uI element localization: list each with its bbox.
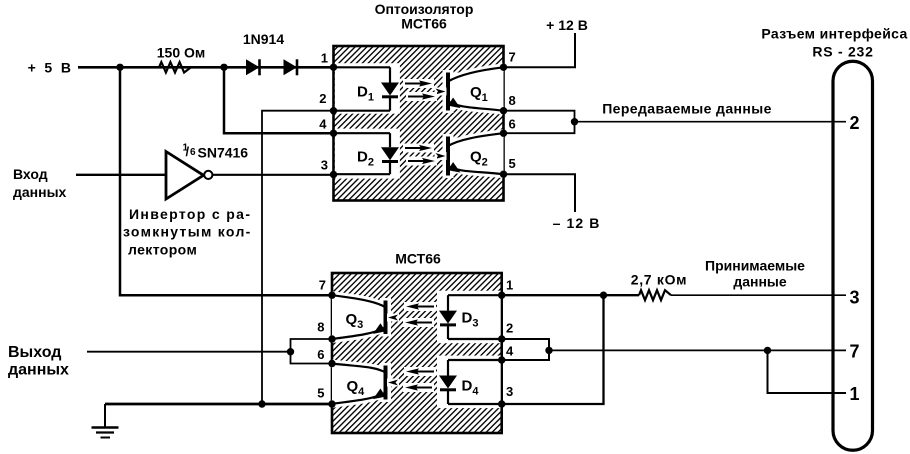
svg-text:– 12 В: – 12 В: [553, 215, 601, 231]
svg-text:2,7 кОм: 2,7 кОм: [631, 272, 688, 288]
junction pin 2 U3: [498, 335, 505, 342]
light arrowhead at Q1 base: [435, 88, 447, 96]
white channel for D1: [335, 63, 400, 113]
svg-text:7: 7: [509, 49, 516, 64]
wire lower pin1 to resistor and RS-232 pin 3: [502, 294, 639, 296]
optoisolator U3 MCT66 (bottom) package: [332, 273, 502, 433]
svg-text:/: /: [186, 144, 190, 159]
junction pin 3 U1: [330, 171, 337, 178]
junction pin 1 U3: [498, 292, 505, 299]
svg-text:Разъем интерфейса: Разъем интерфейса: [761, 26, 907, 42]
phototransistor Q1: [448, 67, 504, 110]
junction pin 1 U1: [330, 64, 337, 71]
svg-text:3: 3: [506, 384, 513, 399]
svg-text:3: 3: [321, 158, 328, 173]
ground symbol: [104, 404, 106, 427]
light arrow D3-Q3 b: [403, 318, 434, 327]
wire ground bus: [105, 403, 332, 406]
svg-text:+ 5 В: + 5 В: [28, 60, 74, 76]
junction pin 7 U3: [328, 292, 335, 299]
junction pin 4 U1: [330, 130, 337, 137]
svg-text:6: 6: [190, 147, 196, 158]
LED D1: [389, 67, 391, 82]
wire lower pin2/pin4 bracket: [502, 339, 549, 360]
svg-text:Принимаемые: Принимаемые: [705, 258, 805, 274]
svg-text:Инвертор с ра-: Инвертор с ра-: [129, 206, 251, 222]
svg-text:RS - 232: RS - 232: [812, 44, 873, 60]
wire pin 8 / pin 6 bracket: [504, 111, 575, 134]
svg-text:1: 1: [321, 50, 328, 65]
svg-text:зомкнутым кол-: зомкнутым кол-: [123, 224, 252, 240]
wire pin1-junction down to pin 3: [502, 295, 604, 404]
LED D4: [447, 360, 449, 376]
resistor R1 150 Ohm: [159, 62, 191, 72]
LED D3: [447, 295, 449, 310]
junction node ground: [258, 400, 265, 407]
junction node RX resistor: [600, 292, 607, 299]
light arrow D1-Q1 b: [406, 92, 437, 101]
wire input data: [76, 174, 166, 176]
svg-text:+ 12 В: + 12 В: [546, 17, 588, 33]
phototransistor Q2: [448, 133, 504, 174]
svg-text:6: 6: [509, 117, 516, 132]
wire pin 2 to ground bus: [262, 111, 334, 404]
svg-text:2: 2: [850, 113, 860, 133]
diode 1N914 #2: [284, 59, 298, 75]
light arrow D2-Q2 b: [406, 157, 437, 166]
svg-text:Вход: Вход: [13, 166, 48, 182]
svg-text:2: 2: [506, 321, 513, 336]
white channel for D4: [437, 356, 501, 409]
inverter output bubble: [204, 171, 212, 179]
wire +5V branch down to lower pin7: [120, 67, 332, 295]
D3/D4 channel wires: [448, 294, 502, 296]
svg-text:Передаваемые данные: Передаваемые данные: [602, 101, 772, 117]
light arrow D1-Q1 a: [403, 79, 434, 88]
svg-text:данных: данных: [8, 362, 69, 379]
junction pin 8 U1: [500, 107, 507, 114]
optoisolator U1 MCT66 (top) package: [334, 46, 504, 201]
wire to RS-232 pin 7: [549, 349, 846, 351]
junction pin 4 U3: [498, 356, 505, 363]
svg-text:МСТ66: МСТ66: [395, 251, 441, 267]
light arrowhead at Q2 base: [435, 152, 447, 160]
svg-text:SN7416: SN7416: [198, 144, 249, 160]
RS-232 connector body: [833, 61, 873, 450]
svg-text:7: 7: [850, 342, 860, 362]
svg-text:Оптоизолятор: Оптоизолятор: [375, 1, 474, 17]
light arrowhead at Q3 base: [387, 314, 399, 322]
wire output data: [87, 351, 291, 353]
junction node diode junction: [220, 64, 227, 71]
wire inverter output to pin 3: [213, 174, 334, 176]
wire pin 7 to +12V: [504, 33, 576, 67]
junction pin 5 U1: [500, 171, 507, 178]
svg-text:7: 7: [319, 278, 326, 293]
junction pin 3 U3: [498, 400, 505, 407]
svg-text:Выход: Выход: [8, 344, 61, 361]
wire drop to RS-232 pin 1: [768, 350, 847, 393]
svg-text:4: 4: [319, 117, 327, 132]
light arrow D3-Q3 a: [404, 302, 436, 311]
svg-text:6: 6: [317, 347, 324, 362]
svg-text:2: 2: [319, 91, 326, 106]
junction pin 6 U1: [500, 130, 507, 137]
svg-text:1N914: 1N914: [243, 31, 284, 47]
phototransistor Q3: [332, 295, 386, 339]
svg-text:данные: данные: [733, 274, 787, 290]
wire junction-B down to pin 4: [224, 67, 334, 133]
junction node RX tap: [545, 347, 552, 354]
wire transmitted data to RS-232 pin 2: [575, 121, 847, 123]
wire lower pin8/pin6 bracket: [291, 339, 333, 364]
svg-text:8: 8: [509, 93, 516, 108]
wire pin 5 to -12V: [504, 174, 576, 212]
D1/D2 channel wires: [334, 66, 391, 68]
svg-text:8: 8: [317, 320, 324, 335]
svg-text:1: 1: [850, 384, 860, 404]
junction pin 7 U1: [500, 64, 507, 71]
junction node TX data: [571, 118, 578, 125]
junction pin 2 U1: [330, 107, 337, 114]
diode 1N914 #1: [246, 59, 260, 75]
junction pin 6 U3: [328, 360, 335, 367]
LED D2: [389, 133, 391, 147]
phototransistor Q4: [332, 364, 386, 404]
light arrowhead at Q4 base: [387, 379, 399, 387]
junction node output data: [287, 348, 294, 355]
svg-text:лектором: лектором: [128, 242, 197, 258]
light arrow D2-Q2 a: [403, 144, 434, 153]
svg-text:3: 3: [850, 288, 860, 308]
svg-text:5: 5: [317, 386, 324, 401]
white channel for D3: [437, 291, 501, 344]
svg-text:1: 1: [506, 278, 513, 293]
light arrow D4-Q4 b: [403, 383, 434, 392]
junction pin 5 U3: [328, 400, 335, 407]
junction node pin7/pin1: [764, 347, 771, 354]
white channel for D2: [335, 129, 400, 179]
inverter U2 1/6 SN7416: [166, 152, 204, 200]
svg-text:5: 5: [509, 156, 516, 171]
svg-text:4: 4: [506, 344, 514, 359]
wire +5V rail: [78, 66, 334, 69]
junction node +5V branch: [116, 64, 123, 71]
svg-text:данных: данных: [13, 184, 67, 200]
svg-text:МСТ66: МСТ66: [401, 16, 447, 32]
svg-text:150 Ом: 150 Ом: [157, 45, 206, 61]
resistor R2 2.7 kOhm: [639, 290, 671, 300]
junction pin 8 U3: [328, 335, 335, 342]
light arrow D4-Q4 a: [404, 367, 436, 376]
